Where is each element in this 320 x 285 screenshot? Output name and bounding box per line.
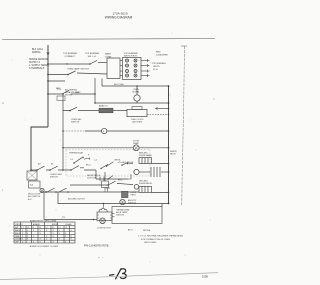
svg-text:L. SUPPLY SERIAL: L. SUPPLY SERIAL (29, 64, 50, 67)
label broil unit (139, 180, 153, 185)
svg-text:NOTED: NOTED (65, 95, 73, 97)
wire: outlet row (58, 192, 169, 204)
wire: third row (48, 80, 65, 82)
svg-text:B+C: B+C (28, 199, 33, 201)
svg-text:WIRING DIAGRAM: WIRING DIAGRAM (105, 15, 133, 19)
wire timer to clock (113, 110, 127, 112)
svg-text:SWITCH: SWITCH (71, 121, 80, 123)
wire: drop to receptacle row (96, 172, 105, 181)
svg-text:BLK-RED OUTLET: BLK-RED OUTLET (68, 199, 86, 201)
lamp: anti tip indicator (120, 199, 125, 204)
svg-text:1. TO L1, NEUTRAL REQUIRES THE: 1. TO L1, NEUTRAL REQUIRES THERMOSTAT, (138, 234, 184, 237)
svg-text:TOP BURNER: TOP BURNER (85, 53, 100, 55)
label wiring notes small (65, 89, 80, 97)
component: door switch box 1 (27, 171, 37, 180)
notes block (138, 230, 184, 244)
thermostat inner glyphs (70, 154, 98, 161)
svg-text:* TOP BURNER: * TOP BURNER (150, 63, 166, 65)
svg-text:12GA WIRE: 12GA WIRE (156, 54, 168, 57)
svg-text:R. H.: R. H. (153, 69, 158, 71)
svg-text:OVEN LAMP SWITCH: OVEN LAMP SWITCH (67, 67, 89, 70)
svg-text:WIRING: WIRING (32, 52, 41, 54)
label inside bulb box (116, 208, 130, 216)
scan noise specks (2, 33, 215, 263)
wire: timer row (63, 110, 99, 112)
label clock (130, 119, 144, 124)
broil contacts in thermostat (101, 162, 133, 169)
label red wire (156, 52, 168, 57)
svg-text:2600W BAKE: 2600W BAKE (139, 154, 152, 157)
component: door switch box 2 (29, 181, 41, 188)
table rows text (15, 229, 73, 244)
wire: clock stub (155, 107, 169, 110)
wire: left drop to bottom bus (43, 192, 45, 220)
svg-text:BLK 12GA: BLK 12GA (114, 83, 124, 86)
label anti tip (128, 199, 137, 205)
wire: main lower row (40, 191, 139, 193)
label bake unit (132, 89, 140, 94)
lamp door (133, 145, 139, 151)
heater: bake unit coil (139, 158, 152, 164)
switch oven lamp (68, 71, 107, 75)
title text (105, 12, 133, 20)
svg-text:BLK 12GA: BLK 12GA (32, 48, 43, 51)
svg-text:CONV MOTOR: CONV MOTOR (97, 228, 111, 230)
left supply text block (29, 48, 50, 70)
switch lower 2 (59, 188, 67, 192)
svg-text:L2: L2 (46, 227, 48, 229)
label receptacle (87, 174, 101, 180)
svg-text:BAKE: BAKE (15, 229, 21, 232)
svg-text:SIGNAL: SIGNAL (132, 91, 140, 94)
label top burner units (150, 63, 166, 71)
label white (170, 151, 177, 156)
svg-text:L1: L1 (22, 227, 24, 229)
switch thermostat contact (74, 158, 82, 163)
bottom streak line (0, 273, 218, 280)
wire: bottom bus (44, 219, 97, 221)
wire: oven lamp row (48, 74, 68, 76)
svg-text:BAKE: BAKE (105, 53, 111, 56)
wire bake coil to bus (152, 163, 169, 165)
svg-text:A BAKE BROIL TIMED CLEA: A BAKE BROIL TIMED CLEAN (30, 220, 57, 223)
wire TB1 to switch block (120, 61, 123, 76)
svg-text:SWITCH: SWITCH (116, 215, 124, 217)
svg-text:1008: 1008 (202, 274, 208, 278)
svg-text:ANALOG: ANALOG (99, 105, 108, 108)
small component box (57, 96, 65, 101)
component: bulb box (161, 204, 163, 207)
wire: stub row (96, 178, 128, 180)
switch broil lamp (108, 181, 133, 185)
svg-text:VIO-RED 2850W: VIO-RED 2850W (118, 162, 133, 164)
svg-text:NEUT.: NEUT. (170, 154, 176, 156)
svg-text:L2: L2 (27, 227, 29, 229)
wire to terminal block (98, 62, 107, 64)
wire: left supply bus L1 (47, 45, 49, 127)
svg-text:TOP BURNER: TOP BURNER (63, 53, 78, 55)
label vent (131, 192, 137, 197)
svg-text:LAMP: LAMP (133, 142, 139, 145)
thermostat dashed box (66, 150, 150, 177)
label top burner connect (63, 53, 112, 59)
table header text (15, 220, 72, 229)
wire: left jog (31, 127, 48, 170)
lamp broil signal (134, 169, 139, 174)
svg-text:AUX: AUX (76, 91, 81, 94)
svg-text:NOTES:: NOTES: (143, 230, 151, 232)
wire: bake feed row (102, 79, 169, 87)
svg-text:BROIL: BROIL (15, 233, 21, 235)
terminals in switch block (126, 59, 138, 77)
top burner switch block S2 (123, 58, 142, 80)
switch selector (70, 107, 77, 110)
svg-text:RECEPTACLE: RECEPTACLE (87, 174, 101, 177)
svg-text:120V 15A: 120V 15A (87, 177, 96, 180)
wire: right neutral bus N (168, 86, 170, 204)
wire: left selector bus (62, 94, 64, 170)
handwritten mark /3 (110, 269, 127, 279)
svg-text:VENT: VENT (131, 195, 137, 197)
svg-text:BROIL: BROIL (52, 224, 58, 226)
wire broil coil to bus (152, 191, 169, 193)
svg-text:S TERMINALS: S TERMINALS (29, 67, 45, 70)
motor: plug box (97, 212, 112, 221)
svg-text:SWITCH: SWITCH (128, 202, 136, 204)
svg-text:A SWITCH CONTACT CLOSED: A SWITCH CONTACT CLOSED (30, 245, 59, 248)
lamp fuse circle (40, 188, 44, 192)
label top burner switch RH (123, 53, 138, 58)
label door lamp (133, 141, 140, 146)
wires out right of switch block (141, 59, 150, 77)
motor: coil bumps (99, 204, 107, 213)
wire: aux row (48, 91, 95, 94)
timer block dark (99, 108, 113, 113)
heating element hatch (139, 167, 169, 177)
top rule line (2, 38, 215, 39)
switch broil 1 (37, 166, 45, 170)
svg-text:CLEAN: CLEAN (15, 238, 22, 241)
svg-text:CLEAN: CLEAN (65, 223, 72, 226)
node junction (47, 63, 49, 65)
svg-text:SUPPLY 3: SUPPLY 3 (29, 62, 40, 64)
label bake unit (139, 152, 152, 157)
glyph steps before vent box (105, 188, 110, 192)
switch aux (62, 90, 69, 94)
lamp: bake indicator (134, 95, 140, 101)
heater: broil unit coil (139, 186, 152, 192)
wire: door lamp row (63, 147, 169, 149)
svg-text:L2: L2 (65, 227, 67, 229)
contact marks on stub (100, 176, 113, 182)
component: receptacle box (102, 181, 109, 188)
wire: oven light row (63, 130, 85, 132)
switch top burner (90, 60, 97, 64)
svg-text:CIRCUIT: CIRCUIT (15, 224, 24, 226)
svg-text:THERMOSTAT: THERMOSTAT (116, 208, 130, 211)
pins on box edge (112, 214, 115, 217)
switch oven contact (71, 166, 84, 170)
switch broil 2 (50, 166, 58, 170)
svg-text:SW. L.H.: SW. L.H. (88, 56, 97, 58)
svg-text:THERMOSTAT: THERMOSTAT (69, 152, 84, 155)
clock module (127, 109, 147, 116)
label door switch (28, 194, 41, 201)
svg-text:SWITCH R.H.: SWITCH R.H. (124, 56, 138, 58)
wire: top burner row (48, 63, 90, 65)
label bake broil (38, 159, 91, 166)
svg-text:A BAKE: A BAKE (33, 223, 40, 226)
switch lower 1 (47, 188, 55, 192)
svg-text:ANTI-TIP: ANTI-TIP (128, 199, 137, 202)
svg-text:SMOKE SENSOR: SMOKE SENSOR (29, 59, 48, 61)
svg-text:CONNECT: CONNECT (65, 56, 76, 58)
svg-text:UNITS: UNITS (153, 66, 160, 68)
svg-text:RED: RED (156, 52, 161, 54)
svg-text:FOR CONNECTION OF OVEN: FOR CONNECTION OF OVEN (141, 239, 170, 241)
svg-text:L1: L1 (59, 227, 61, 229)
wire: row to bus (95, 102, 169, 104)
svg-text:3000W BROIL: 3000W BROIL (139, 183, 153, 185)
svg-text:120V 60HZ: 120V 60HZ (132, 122, 143, 124)
lamp oven light (102, 128, 107, 133)
wire: broil lamp row (70, 184, 108, 186)
wire: broil row (31, 170, 96, 179)
label selector switch (71, 119, 82, 124)
svg-text:UNTIL USED.: UNTIL USED. (144, 242, 157, 244)
label oven switch (50, 174, 63, 179)
wire dashed clock to bus (147, 113, 169, 115)
svg-text:TIME: TIME (15, 236, 20, 238)
table: wire legend (14, 222, 75, 243)
svg-text:SWITCH: SWITCH (50, 177, 58, 179)
connector glyph on bus (47, 52, 49, 55)
svg-text:P/N-131469700 R07B: P/N-131469700 R07B (84, 245, 109, 248)
motor: circle (100, 218, 106, 224)
svg-text:L1: L1 (39, 227, 41, 229)
wire: right border line (181, 45, 187, 47)
component: oven vent box (122, 191, 129, 197)
svg-text:SW: SW (15, 227, 18, 229)
lamp broil indicator (134, 185, 139, 190)
wire: drop from terminal block (94, 78, 96, 103)
terminal block TB1 (107, 58, 120, 79)
